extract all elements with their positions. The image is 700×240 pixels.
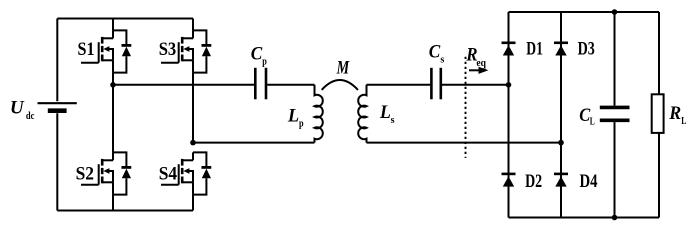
wire: battery positive lead [56,19,58,102]
svg-text:D3: D3 [578,39,595,60]
node: D3-D4 midpoint junction [558,140,564,146]
svg-text:S1: S1 [78,39,95,60]
transistor S4 (MOSFET with body diode) [161,152,211,194]
wire: CL bottom lead [614,122,616,217]
svg-text:L: L [379,102,391,123]
transistor S3 (MOSFET with body diode) [161,30,211,72]
svg-text:C: C [429,42,441,63]
battery Udc positive plate [38,102,77,104]
wire: rectifier top rail [509,11,660,13]
wire: RL top lead [658,12,660,94]
capacitor CL [600,107,630,120]
arrow Req direction [469,69,480,71]
node: CL top junction [612,9,618,15]
svg-text:L: L [287,105,299,126]
svg-text:L: L [590,116,595,128]
wire: S4 source to bottom rail [192,195,194,211]
diode D3 [554,43,568,56]
svg-text:C: C [251,44,263,65]
wire: Lp bottom to S3-S4 midpoint [193,142,315,144]
wire: rectifier second leg (D3/D4) [560,12,562,218]
svg-text:S2: S2 [76,163,94,184]
svg-text:R: R [668,103,681,124]
svg-text:D1: D1 [526,39,543,60]
node: rectifier left leg input junction [506,82,512,88]
capacitor Cp [255,68,266,100]
transistor S2 (MOSFET with body diode) [81,152,131,194]
svg-text:S4: S4 [159,163,178,184]
wire: Ls bottom to D3-D4 midpoint [367,142,562,144]
wire: S2 source to bottom rail [112,195,114,211]
wire: RL bottom lead [658,133,660,218]
wire: battery negative lead [56,113,58,210]
wire: inverter top rail [57,18,193,20]
transistor S1 (MOSFET with body diode) [81,30,131,72]
svg-text:s: s [391,114,396,126]
svg-text:C: C [579,105,590,126]
resistor RL [652,94,664,133]
diode D2 [502,174,516,187]
wire: inverter midpoint to Cp [113,84,254,86]
svg-text:M: M [336,58,350,79]
capacitor Cs [431,68,440,100]
svg-text:dc: dc [26,110,35,122]
wire: S1 leg from top rail [112,19,114,31]
svg-text:D4: D4 [580,171,598,192]
svg-text:U: U [10,98,25,119]
dashed boundary line at Req [465,57,467,158]
wire: Cp to Lp [267,84,314,86]
node: S1-S2 midpoint junction [110,82,116,88]
wire: S2 midpoint lead [112,85,114,153]
node: S3-S4 midpoint junction [190,140,196,146]
svg-text:p: p [262,55,267,67]
mutual inductance arc M [322,80,358,90]
svg-text:S3: S3 [159,39,177,60]
wire: S3 leg from top rail [192,19,194,31]
inductor Lp coil [315,85,323,143]
diode D4 [554,174,568,187]
wire: CL top lead [614,12,616,106]
battery Udc negative plate [48,108,67,113]
inductor Ls coil [358,85,366,143]
svg-text:p: p [299,118,304,130]
svg-text:eq: eq [476,57,486,69]
wire: Cs to rectifier input [442,84,509,86]
node: CL bottom junction [612,215,618,221]
wire: S1 source to midpoint node [112,73,114,85]
svg-text:s: s [440,54,445,66]
svg-text:L: L [681,115,686,127]
wire: S3 source to midpoint node [192,73,194,143]
wire: rectifier bottom rail [509,217,660,219]
wire: Ls top to Cs [367,84,431,86]
wire: rectifier left leg (D1/D2) [508,12,510,218]
wire: inverter bottom rail [57,210,193,212]
svg-text:D2: D2 [525,171,542,192]
diode D1 [502,43,516,56]
